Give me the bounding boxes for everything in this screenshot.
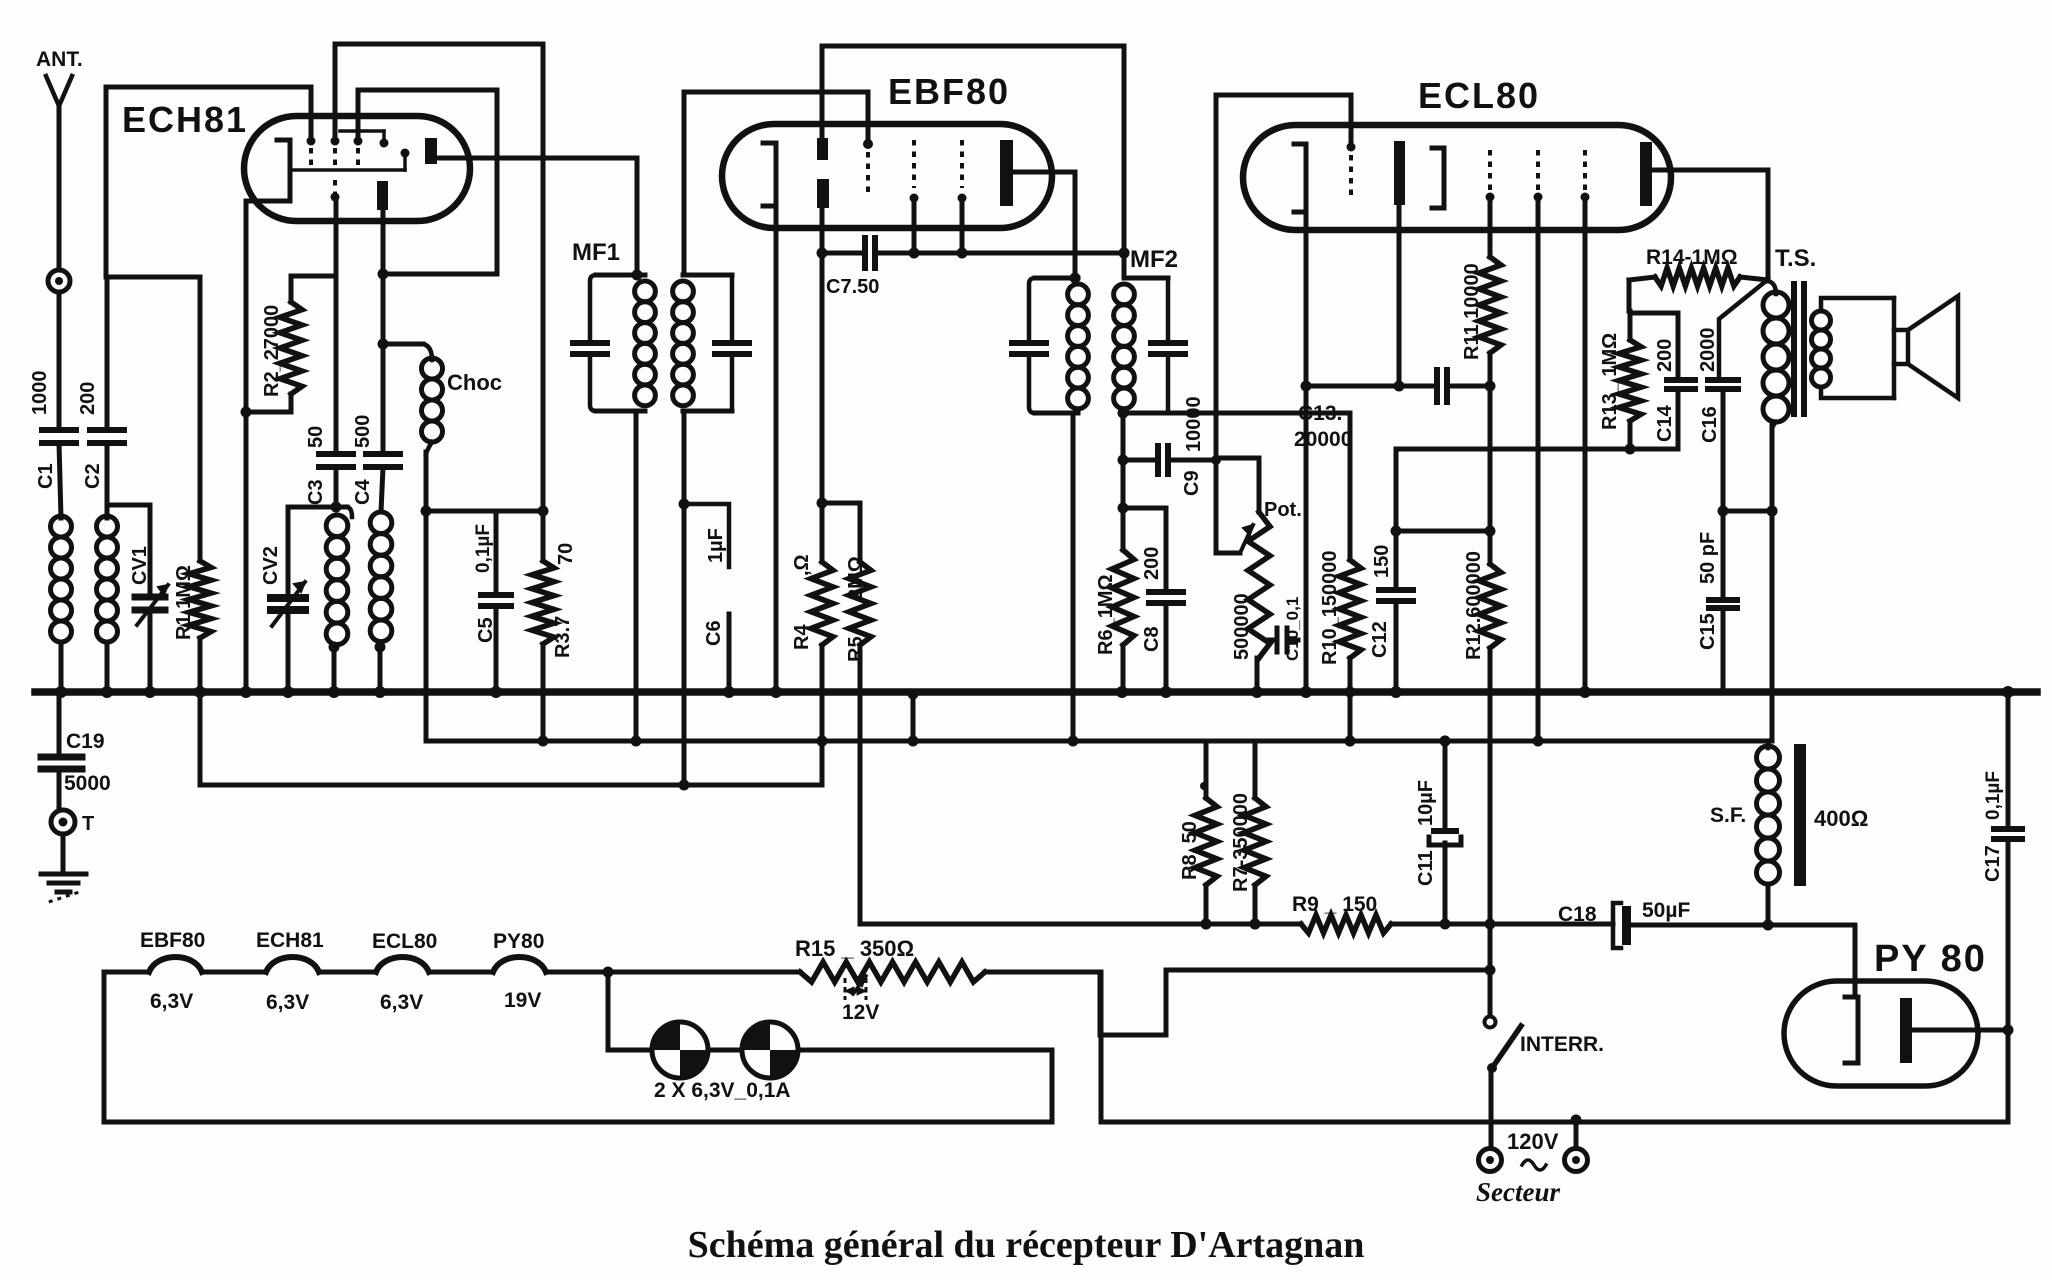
lamp 2 <box>742 1022 798 1078</box>
wire ECH81 plate to MF1 <box>437 156 637 161</box>
ECH81 pin g4 <box>307 87 316 168</box>
wire H531 <box>1396 529 1490 534</box>
svg-text:CV2: CV2 <box>260 546 282 585</box>
bus junction x=1396 <box>1390 686 1402 698</box>
svg-text:R12.600000: R12.600000 <box>1463 551 1485 660</box>
svg-text:Schéma général du récepteur D': Schéma général du récepteur D'Artagnan <box>688 1224 1365 1266</box>
B rail junction x=822 <box>817 736 828 747</box>
wire heater segment <box>202 970 266 975</box>
choke SF value <box>1814 806 1868 831</box>
wire lamp return <box>798 1050 1052 1122</box>
MF2 primary box <box>1012 273 1081 414</box>
wire ECL80 pin to B rail <box>1536 197 1541 741</box>
inductor L2 antenna secondary <box>97 516 118 642</box>
R15 tap arrow <box>853 976 866 994</box>
wire ECL80 pin to bus <box>1583 197 1588 692</box>
wire TS primary bottom <box>1767 426 1778 741</box>
svg-text:R8. 50: R8. 50 <box>1179 821 1201 880</box>
svg-text:C1: C1 <box>35 463 57 489</box>
potentiometer Pot 500000 <box>1216 458 1302 692</box>
heater ECL80 <box>372 930 437 1014</box>
ground bus <box>35 688 2037 696</box>
resistor R9 150 <box>1292 893 1391 933</box>
svg-text:R1.1MΩ: R1.1MΩ <box>173 565 195 640</box>
wire L2 to bus <box>105 642 110 692</box>
wire H90 net <box>358 90 497 274</box>
resistor R10 150000 <box>1319 413 1361 747</box>
svg-text:C12: C12 <box>1369 621 1391 658</box>
svg-text:Pot.: Pot. <box>1264 499 1302 521</box>
svg-text:C9: C9 <box>1181 470 1203 496</box>
svg-text:INTERR.: INTERR. <box>1520 1033 1604 1056</box>
svg-text:C6: C6 <box>703 620 725 646</box>
svg-text:200: 200 <box>1141 547 1163 580</box>
resistor R3 70 <box>532 543 577 741</box>
svg-text:C18: C18 <box>1558 903 1597 926</box>
svg-text:0,1µF: 0,1µF <box>1983 771 2004 820</box>
MF1 primary box <box>573 158 645 411</box>
ECH81 pin g2 <box>331 44 340 168</box>
heater EBF80 <box>140 929 205 1013</box>
svg-text:ECH81: ECH81 <box>256 929 324 952</box>
svg-text:R14-1MΩ: R14-1MΩ <box>1646 246 1738 269</box>
B rail junction x=1538 <box>1533 736 1544 747</box>
resistor R4 <box>791 554 833 785</box>
wire H449 bar <box>1391 449 1679 537</box>
capacitor C19 5000 <box>41 692 111 809</box>
svg-text:2 X 6,3V_0,1A: 2 X 6,3V_0,1A <box>654 1079 791 1102</box>
bus junction x=1585 <box>1579 686 1591 698</box>
capacitor C5 0,1µF <box>473 511 511 692</box>
svg-text:CV1: CV1 <box>129 546 151 585</box>
resistor R5 2MΩ <box>822 503 871 924</box>
EBF80 diode pin 1 <box>910 140 919 253</box>
speaker <box>1894 296 1958 398</box>
ANT label <box>36 48 83 71</box>
svg-text:500: 500 <box>352 415 374 448</box>
antenna terminal <box>48 270 70 292</box>
resistor R6 1MΩ <box>1095 550 1134 692</box>
choke Choc <box>383 344 502 454</box>
svg-text:2000: 2000 <box>1697 328 1719 373</box>
wire screen net H44 <box>335 44 549 561</box>
wire ECL80 cathode to bus <box>1301 212 1312 692</box>
wire PY80 plate <box>1912 1028 2008 1033</box>
resistor R2 27000 <box>246 276 336 412</box>
PY80 label <box>1874 938 1987 980</box>
wire lamp branch <box>608 972 652 1050</box>
heater PY80 <box>493 930 546 1012</box>
svg-text:500000: 500000 <box>1231 593 1253 660</box>
ground symbol <box>41 834 86 902</box>
svg-text:C10_0,1: C10_0,1 <box>1283 597 1302 661</box>
svg-text:PY80: PY80 <box>493 930 544 953</box>
capacitor C13 20000 box drop <box>0 0 1 1</box>
wire between lamps <box>708 1048 742 1053</box>
wire B rail <box>426 739 1770 744</box>
svg-text:Secteur: Secteur <box>1476 1177 1560 1207</box>
bus junction x=107 <box>101 686 113 698</box>
ECH81 plate <box>425 138 437 164</box>
bus junction x=288 <box>282 686 294 698</box>
inductor L3 oscillator <box>326 507 352 692</box>
capacitor C8 200 <box>1123 508 1183 692</box>
mains plug 2 <box>1565 1115 1588 1172</box>
svg-text:C7.50: C7.50 <box>826 276 879 298</box>
resistor R15 350Ω <box>795 936 985 982</box>
resistor R7 350000 <box>1230 741 1266 930</box>
svg-text:6,3V: 6,3V <box>150 990 193 1013</box>
mains sine <box>1522 1160 1546 1170</box>
capacitor C12 150 <box>1369 449 1413 692</box>
svg-text:ECH81: ECH81 <box>122 99 248 140</box>
wire antenna to C1 <box>57 292 62 427</box>
capacitor C10 0,1 <box>1266 597 1302 661</box>
B rail junction x=913 <box>908 736 919 747</box>
wire ECL80 grid line <box>1216 95 1351 553</box>
ECH81 label <box>122 99 248 140</box>
transformer TS secondary <box>1812 298 1895 398</box>
tube ECH81 <box>244 116 470 221</box>
wire heater to lamps node <box>546 967 800 978</box>
ECH81 internal shield <box>291 149 410 171</box>
svg-text:5000: 5000 <box>64 772 111 795</box>
svg-text:R6_1MΩ: R6_1MΩ <box>1095 574 1117 655</box>
wire ECH81 cathode to bus <box>241 201 252 692</box>
capacitor C1 1000 <box>29 371 76 490</box>
svg-text:400Ω: 400Ω <box>1814 806 1868 831</box>
choke SF core <box>1794 744 1806 886</box>
svg-text:MF1: MF1 <box>572 239 620 266</box>
ECH81 cathode <box>246 140 290 201</box>
lamp label <box>654 1079 791 1102</box>
resistor R12 600000 <box>1463 551 1501 1016</box>
transformer TS primary <box>1763 281 1789 430</box>
svg-text:120V: 120V <box>1507 1129 1559 1154</box>
bus junction x=496 <box>490 686 502 698</box>
EBF80 plate <box>1000 140 1013 206</box>
resistor R11 10000 <box>1461 197 1501 564</box>
capacitor C6 <box>703 614 729 692</box>
capacitor C7 50 <box>822 238 1130 298</box>
svg-text:S.F.: S.F. <box>1710 804 1746 827</box>
svg-text:R2_27000: R2_27000 <box>261 305 283 397</box>
wire MF2 primary bottom <box>1071 413 1076 741</box>
transformer TS core <box>1791 281 1807 417</box>
resistor R8 50 <box>1179 741 1217 930</box>
MF1 label <box>572 239 620 266</box>
svg-text:R4: R4 <box>791 624 813 650</box>
svg-text:19V: 19V <box>504 989 541 1012</box>
wire C1 to L1 <box>59 443 61 518</box>
ECH81 pin g3 <box>354 90 363 168</box>
capacitor C16 2000 <box>1697 281 1766 517</box>
svg-text:12V: 12V <box>842 1001 879 1024</box>
wire bottom rail left <box>104 972 1052 1122</box>
wire EBF80 plate to MF2 <box>1013 172 1075 278</box>
wire screen top box <box>822 44 1124 49</box>
svg-text:R9 _ 150: R9 _ 150 <box>1292 893 1377 916</box>
svg-text:C15: C15 <box>1697 613 1719 650</box>
wire anode to C4 <box>378 210 389 451</box>
12V bracket <box>842 978 879 1024</box>
svg-text:150: 150 <box>1371 545 1393 578</box>
wire H511 bar <box>426 509 543 514</box>
wire C3 to L3 top <box>334 467 339 507</box>
MF2 primary coil <box>1068 284 1089 409</box>
PY80 anode <box>1900 998 1912 1063</box>
wire top grid net <box>106 87 311 277</box>
svg-text:C14: C14 <box>1654 404 1676 442</box>
wire C4 to L4 <box>381 467 383 512</box>
capacitor C14 200 <box>1630 313 1695 449</box>
wire MF1 sec bottom <box>679 411 690 785</box>
B rail junction x=1350 <box>1345 736 1356 747</box>
svg-text:C4: C4 <box>352 479 374 505</box>
ECH81 triode anode bar <box>377 181 388 210</box>
choke SF <box>1710 741 1780 925</box>
wire MF1 primary to B rail <box>634 411 639 741</box>
resistor R14 1MΩ <box>1629 246 1768 311</box>
wire triode plate to C13 <box>1394 205 1405 392</box>
capacitor C2 200 <box>77 277 124 489</box>
B rail junction x=636 <box>631 736 642 747</box>
bus junction x=1306 <box>1300 686 1312 698</box>
bus junction x=334 <box>328 686 340 698</box>
svg-text:10000: 10000 <box>1183 396 1205 452</box>
bus junction x=200 <box>194 686 206 698</box>
bus junction x=1166 <box>1160 686 1172 698</box>
bus junction x=380 <box>374 686 386 698</box>
svg-text:C5: C5 <box>475 617 497 643</box>
wire L1 to bus <box>59 642 64 692</box>
svg-text:R15 _ 350Ω: R15 _ 350Ω <box>795 936 914 961</box>
bus junction x=61 <box>55 686 67 698</box>
variable capacitor CV1 <box>129 505 168 692</box>
svg-text:6,3V: 6,3V <box>266 991 309 1014</box>
svg-text:R11.10000: R11.10000 <box>1461 263 1483 360</box>
TS label <box>1775 245 1816 272</box>
Secteur label <box>1476 1177 1560 1207</box>
B rail junction x=1073 <box>1068 736 1079 747</box>
EBF80 diode pin 2 <box>958 140 967 253</box>
EBF80 label <box>888 71 1010 112</box>
svg-text:MF2: MF2 <box>1130 246 1178 273</box>
svg-text:T: T <box>82 813 94 835</box>
wire EBF80 cathode to bus <box>774 206 779 692</box>
switch INTERR <box>1485 1017 1605 1123</box>
B rail junction x=543 <box>538 736 549 747</box>
MF2 secondary coil <box>1114 284 1135 409</box>
PY80 cathode <box>1845 997 1858 1063</box>
wire C2 to L2 <box>105 443 110 518</box>
capacitor 1µF hook <box>684 504 729 567</box>
bus junction x=729 <box>723 686 735 698</box>
capacitor C15 50pF <box>1697 511 1737 692</box>
ECH81 triode grid pin <box>331 180 340 202</box>
earth terminal <box>51 810 94 835</box>
wire heater segment <box>319 970 376 975</box>
ECL80 pin g2 <box>1581 150 1590 202</box>
svg-text:C17: C17 <box>1982 845 2004 882</box>
svg-text:C13.: C13. <box>1298 402 1342 425</box>
wire ECL80 plate line <box>1652 170 1768 281</box>
svg-text:ECL80: ECL80 <box>1418 75 1540 116</box>
svg-text:50 pF: 50 pF <box>1697 532 1719 584</box>
resistor R1 1MΩ <box>173 277 211 785</box>
wire heater segment <box>429 970 493 975</box>
pot wiper arrow <box>1216 525 1253 553</box>
ECL80 plate <box>1640 142 1652 206</box>
svg-text:R10_150000: R10_150000 <box>1319 550 1341 665</box>
ECL80 grid pin <box>1347 143 1356 201</box>
ECL80 pentode cathode <box>1432 148 1444 208</box>
bus junction x=150 <box>144 686 156 698</box>
EBF80 grid pin <box>863 139 873 196</box>
caption <box>688 1224 1365 1266</box>
bus junction x=246 <box>240 686 252 698</box>
capacitor C18 50µF <box>1558 899 1690 948</box>
svg-text:6,3V: 6,3V <box>380 991 423 1014</box>
bus junction x=2008 <box>2002 686 2014 698</box>
ECH81 internal strap <box>340 131 389 148</box>
tube EBF80 <box>722 124 1052 228</box>
wire heater line left <box>104 970 149 975</box>
MF2 secondary box <box>1124 278 1185 413</box>
svg-text:PY 80: PY 80 <box>1874 938 1987 980</box>
wire osc grid to C3 <box>334 202 339 451</box>
variable capacitor CV2 <box>260 507 305 692</box>
wire bus to B tie 2 <box>1348 692 1353 741</box>
wire choke to H511 <box>421 452 432 741</box>
capacitor C11 10µF <box>1415 736 1461 925</box>
MF2 label <box>1130 246 1178 273</box>
svg-text:C8: C8 <box>1141 626 1163 652</box>
mains plug 1 <box>1479 1122 1502 1172</box>
wire detector to R10 <box>1168 411 1350 416</box>
ECL80 label <box>1418 75 1540 116</box>
resistor R13 1MΩ <box>1599 311 1641 455</box>
lamp 1 <box>652 1022 708 1078</box>
capacitor C4 500 <box>352 415 400 505</box>
bus junction x=776 <box>770 686 782 698</box>
svg-text:R3.7: R3.7 <box>552 616 574 658</box>
svg-text:R5.: R5. <box>845 631 867 662</box>
svg-text:200: 200 <box>1654 339 1676 372</box>
svg-text:C3: C3 <box>305 479 327 505</box>
MF1 primary coil <box>635 281 656 406</box>
capacitor C3 50 <box>305 426 353 505</box>
tube PY80 <box>1784 981 1978 1086</box>
wire bottom rail right <box>1101 972 2008 1122</box>
wire C18 to PY80 cathode <box>1631 920 1855 998</box>
wire bus to B tie 1 <box>908 689 919 742</box>
inductor L1 antenna primary <box>51 516 72 642</box>
svg-text:R13_ 1MΩ: R13_ 1MΩ <box>1599 333 1621 430</box>
svg-text:C19: C19 <box>66 730 105 753</box>
svg-text:C11: C11 <box>1415 850 1437 886</box>
wire EBF80 screen to R4 <box>817 208 828 562</box>
tube ECL80 <box>1243 125 1671 230</box>
antenna <box>46 76 72 270</box>
svg-text:1µF: 1µF <box>705 528 727 563</box>
MF1 secondary coil <box>673 281 694 406</box>
ECL80 triode plate bar <box>1394 141 1405 205</box>
wire H511 right <box>1723 506 1778 517</box>
ECL80 pin R11 <box>1486 150 1495 202</box>
MF1 secondary box <box>683 275 749 411</box>
svg-text:Choc: Choc <box>447 370 502 395</box>
wire back-bias line <box>860 919 1613 930</box>
bus junction x=1257 <box>1251 686 1263 698</box>
svg-text:ANT.: ANT. <box>36 48 83 71</box>
svg-text:ECL80: ECL80 <box>372 930 437 953</box>
inductor L4 oscillator <box>370 512 392 692</box>
wire L2 to CV1 <box>107 503 150 508</box>
svg-text:20000: 20000 <box>1294 428 1352 451</box>
EBF80 cathode <box>763 143 776 206</box>
wire MF2 sec top <box>1119 46 1130 278</box>
capacitor C17 0,1µF <box>1982 694 2022 1122</box>
wire MF1 sec top to EBF80 grid <box>684 92 868 275</box>
svg-text:T.S.: T.S. <box>1775 245 1816 272</box>
B rail junction x=1445 <box>1440 736 1451 747</box>
ECL80 triode cathode <box>1294 144 1306 212</box>
svg-text:EBF80: EBF80 <box>140 929 205 952</box>
svg-text:2MΩ: 2MΩ <box>845 556 867 600</box>
svg-text:1000: 1000 <box>29 371 51 416</box>
wire AVC line H785 <box>195 687 823 791</box>
wire detector node <box>1118 408 1129 551</box>
svg-text:R7-350000: R7-350000 <box>1230 793 1252 892</box>
bus junction x=1122 <box>1116 686 1128 698</box>
EBF80 screen bars <box>817 138 829 208</box>
svg-text:C2: C2 <box>82 463 104 489</box>
svg-text:C16: C16 <box>1699 406 1721 443</box>
svg-text:50µF: 50µF <box>1642 899 1690 922</box>
wire heater jog <box>985 965 1496 1036</box>
svg-text:10µF: 10µF <box>1415 780 1437 826</box>
wire EBF80 screen top <box>820 46 825 138</box>
svg-text:50: 50 <box>305 426 327 448</box>
mains 120V label <box>1507 1129 1559 1154</box>
svg-text:,Ω: ,Ω <box>791 554 813 576</box>
svg-text:EBF80: EBF80 <box>888 71 1010 112</box>
svg-text:0,1µF: 0,1µF <box>473 524 494 573</box>
ECL80 pin g <box>1534 150 1543 202</box>
svg-text:200: 200 <box>77 382 99 415</box>
capacitor C13 20000 <box>1294 370 1490 451</box>
capacitor C9 10000 <box>1123 396 1221 496</box>
wire CV2 L3 top bar <box>288 502 347 513</box>
svg-text:70: 70 <box>555 543 577 565</box>
heater ECH81 <box>256 929 324 1014</box>
